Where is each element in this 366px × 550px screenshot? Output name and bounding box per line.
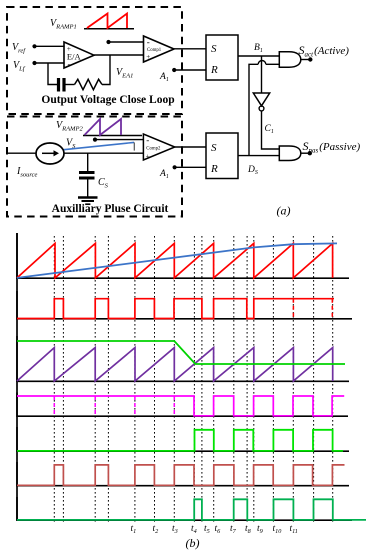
resistor feedback <box>75 79 103 89</box>
svg-text:R: R <box>210 64 218 76</box>
signal row3 green reference line <box>17 341 345 364</box>
axis row3 V_S <box>17 336 349 381</box>
node comp2 minus terminal <box>93 138 97 142</box>
node S_act terminal <box>308 57 312 61</box>
wire AND2 output <box>301 152 310 154</box>
ramp icon V_RAMP2 purple sawtooth <box>85 119 122 135</box>
signal row7 green pulses <box>17 499 366 520</box>
ramp icon baseline wire 2 <box>83 135 142 137</box>
svg-text:t11: t11 <box>290 524 298 535</box>
wire B1 latch1 Q to AND1 <box>238 55 279 57</box>
svg-text:t1: t1 <box>131 524 137 535</box>
ramp icon V_RAMP1 red sawtooth <box>87 14 127 29</box>
wire DS branch up to AND1 with hop <box>249 64 258 155</box>
wire AND1 output <box>301 59 310 61</box>
wire left edge to source <box>7 152 36 154</box>
gate AND2 <box>279 146 301 161</box>
wire Comp1 to latch1 S <box>174 48 206 50</box>
svg-text:B1: B1 <box>254 43 263 54</box>
svg-text:VRAMP1: VRAMP1 <box>50 18 77 31</box>
signal row5 green pulses <box>17 430 343 451</box>
capacitor feedback <box>57 78 60 92</box>
current source I_source <box>36 143 64 164</box>
axis row5 <box>17 427 349 451</box>
svg-text:-: - <box>146 135 149 145</box>
svg-text:DS: DS <box>247 165 258 176</box>
wire resistor up to E/A output <box>102 55 110 85</box>
svg-text:VEA1: VEA1 <box>116 67 133 80</box>
wire ramp to Comp1 minus <box>109 41 144 43</box>
svg-text:Output Voltage Close Loop: Output Voltage Close Loop <box>41 94 174 106</box>
time labels <box>131 524 298 535</box>
svg-text:t7: t7 <box>230 524 237 535</box>
wire feedback tap from V_Lf <box>48 63 57 85</box>
node A1 terminal bottom <box>173 165 177 169</box>
axis row4 <box>17 393 348 417</box>
svg-text:CS: CS <box>98 177 109 190</box>
latch U2 SR <box>206 133 238 179</box>
svg-text:A1: A1 <box>159 169 169 180</box>
inverter U3 <box>253 93 269 106</box>
comparator Comp1 <box>144 36 175 62</box>
node A1 terminal top <box>172 68 176 72</box>
dashed red boundary 2 <box>331 299 333 319</box>
signal row3 purple sawtooth <box>17 348 333 381</box>
wire C1 inverter output to AND2 <box>262 111 280 149</box>
svg-text:+: + <box>146 53 150 61</box>
svg-text:C1: C1 <box>265 124 274 135</box>
svg-text:-: - <box>68 59 71 69</box>
gate AND1 <box>279 52 301 67</box>
signal V_S blue line <box>63 142 135 149</box>
ground <box>78 196 98 198</box>
svg-text:R: R <box>210 163 218 175</box>
svg-text:Isource: Isource <box>16 166 38 179</box>
svg-text:Spas(Passive): Spas(Passive) <box>303 139 361 155</box>
svg-text:(b): (b) <box>186 536 200 550</box>
node V_ref terminal <box>32 44 36 48</box>
signal row1 red sawtooth <box>17 243 333 278</box>
ramp icon baseline wire <box>84 28 134 30</box>
axis row7 <box>17 497 352 520</box>
magenta dashed period marks <box>54 396 174 416</box>
latch U1 SR <box>206 35 238 80</box>
svg-text:S: S <box>211 142 217 154</box>
svg-text:t9: t9 <box>257 524 263 535</box>
svg-text:Vref: Vref <box>12 42 26 55</box>
svg-text:VRAMP2: VRAMP2 <box>56 120 83 133</box>
wire V_ref to E/A <box>35 45 65 47</box>
svg-text:Sact(Active): Sact(Active) <box>299 43 350 59</box>
signal row1 blue V_EA1 line <box>17 243 337 278</box>
signal row4 magenta square wave <box>17 396 344 416</box>
wire V_Lf to E/A <box>35 62 65 64</box>
dashed box Auxilliary Pluse Circuit <box>7 117 182 217</box>
svg-text:t4: t4 <box>191 524 197 535</box>
svg-text:Auxilliary Pluse Circuit: Auxilliary Pluse Circuit <box>52 203 169 215</box>
comparator Comp2 <box>143 134 174 160</box>
tick at blue line end <box>133 142 135 150</box>
op-amp E/A <box>64 42 94 68</box>
svg-text:Comp2: Comp2 <box>146 146 161 151</box>
svg-text:t5: t5 <box>204 524 210 535</box>
capacitor C_S branch <box>87 153 89 171</box>
dashed red boundary 1 <box>292 299 294 319</box>
axis row6 <box>17 462 349 486</box>
wire B1 branch down to inverter <box>261 56 263 93</box>
wire DS latch2 Q to AND2 <box>238 155 279 157</box>
wire cap to resistor <box>66 84 75 86</box>
signal row6 crimson pulses <box>17 465 345 485</box>
svg-text:+: + <box>146 153 150 161</box>
wire Comp2 to latch2 S <box>175 146 206 148</box>
svg-text:S: S <box>211 43 217 55</box>
svg-text:(a): (a) <box>277 204 291 218</box>
svg-text:A1: A1 <box>159 72 169 83</box>
node V_Lf terminal <box>32 61 36 65</box>
gridlines dotted <box>54 236 332 523</box>
main vertical axis <box>16 233 18 520</box>
svg-text:VLf: VLf <box>13 60 26 73</box>
wire source to Comp2 plus <box>64 152 143 154</box>
wire E/A output to Comp1 plus <box>94 54 144 56</box>
svg-text:-: - <box>147 37 150 47</box>
svg-text:t6: t6 <box>215 524 222 535</box>
svg-text:t3: t3 <box>172 524 178 535</box>
wire to Comp2 minus <box>95 139 143 141</box>
axis row1 V_RAMP1 <box>17 233 349 278</box>
wire A1 to latch2 R <box>175 166 206 168</box>
node S_pas terminal <box>308 151 312 155</box>
dashed box Output Voltage Close Loop <box>7 7 182 114</box>
wire A1 to latch1 R <box>174 69 206 71</box>
svg-text:t10: t10 <box>273 524 283 535</box>
node ramp input terminal <box>106 40 110 44</box>
axis row2 A1 <box>17 291 352 319</box>
svg-text:t8: t8 <box>245 524 252 535</box>
svg-text:t2: t2 <box>153 524 159 535</box>
signal row2 red pulses <box>17 299 334 319</box>
